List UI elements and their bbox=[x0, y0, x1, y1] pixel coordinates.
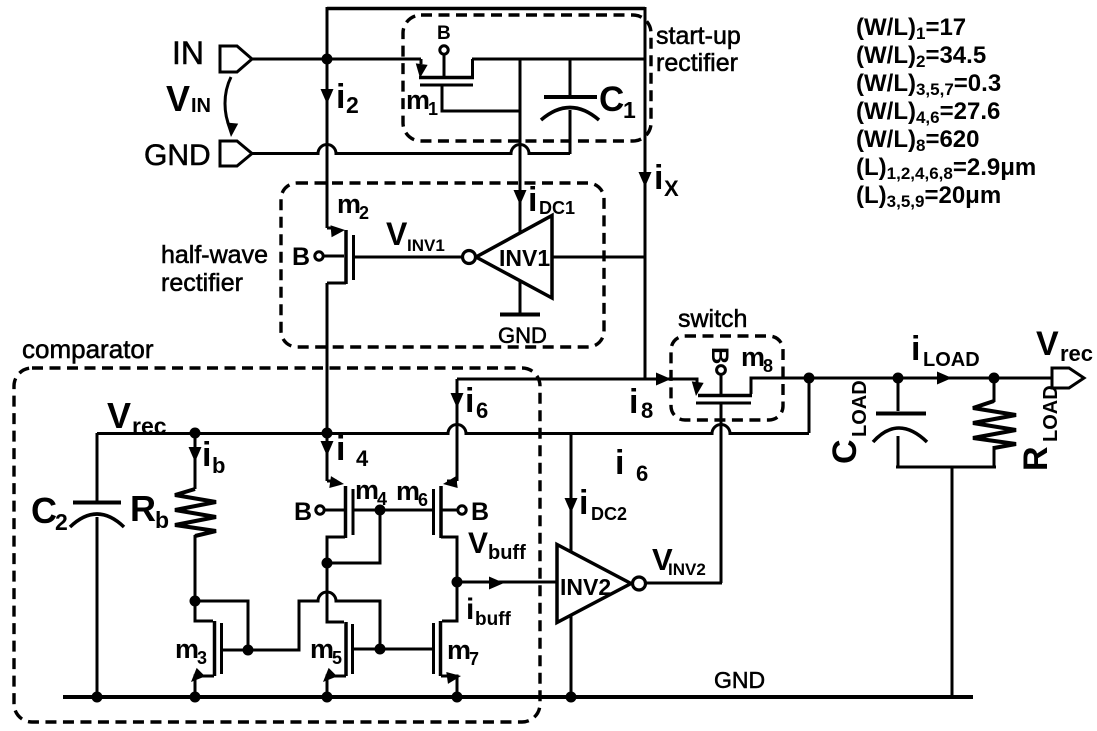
svg-text:3: 3 bbox=[197, 648, 207, 668]
svg-text:GND: GND bbox=[714, 667, 765, 693]
svg-text:1: 1 bbox=[623, 97, 636, 123]
svg-text:LOAD: LOAD bbox=[923, 349, 980, 371]
svg-text:6: 6 bbox=[418, 490, 428, 510]
svg-text:IN: IN bbox=[191, 95, 211, 117]
svg-text:7: 7 bbox=[469, 649, 479, 669]
svg-text:4: 4 bbox=[356, 446, 369, 471]
svg-text:i: i bbox=[911, 330, 920, 368]
svg-text:b: b bbox=[212, 453, 225, 478]
svg-text:6: 6 bbox=[636, 461, 648, 486]
svg-text:m: m bbox=[396, 476, 420, 506]
svg-text:B: B bbox=[437, 23, 451, 44]
svg-text:i: i bbox=[336, 430, 345, 468]
svg-text:(L)3,5,9​=20μm: (L)3,5,9​=20μm bbox=[856, 182, 1001, 211]
svg-text:DC2: DC2 bbox=[591, 504, 627, 524]
svg-text:V: V bbox=[468, 527, 488, 560]
svg-text:LOAD: LOAD bbox=[849, 380, 871, 437]
svg-text:m: m bbox=[355, 475, 379, 505]
svg-text:C: C bbox=[599, 80, 624, 119]
svg-text:INV1: INV1 bbox=[499, 245, 550, 271]
svg-text:rec: rec bbox=[132, 413, 167, 439]
svg-text:m: m bbox=[406, 85, 430, 115]
svg-text:INV2: INV2 bbox=[668, 560, 706, 579]
svg-text:comparator: comparator bbox=[22, 334, 154, 364]
svg-text:rectifier: rectifier bbox=[656, 49, 738, 77]
svg-text:V: V bbox=[107, 395, 131, 436]
svg-text:start-up: start-up bbox=[656, 22, 741, 50]
svg-text:(W/L)1​=17: (W/L)1​=17 bbox=[856, 14, 966, 43]
svg-text:2: 2 bbox=[346, 92, 359, 118]
svg-text:m: m bbox=[447, 635, 471, 665]
svg-text:8: 8 bbox=[763, 356, 773, 376]
svg-text:half-wave: half-wave bbox=[161, 241, 268, 269]
svg-text:LOAD: LOAD bbox=[1040, 385, 1062, 442]
svg-text:4: 4 bbox=[377, 489, 387, 509]
svg-text:i: i bbox=[615, 444, 624, 482]
svg-text:i: i bbox=[336, 78, 345, 116]
svg-text:m: m bbox=[337, 189, 361, 219]
svg-text:rectifier: rectifier bbox=[161, 269, 243, 297]
svg-text:IN: IN bbox=[172, 35, 204, 71]
svg-text:i: i bbox=[629, 383, 638, 421]
svg-text:X: X bbox=[664, 176, 679, 201]
svg-text:i: i bbox=[579, 484, 588, 522]
svg-text:B: B bbox=[706, 347, 733, 364]
svg-text:i: i bbox=[654, 159, 663, 197]
svg-text:i: i bbox=[202, 436, 211, 474]
svg-text:R: R bbox=[130, 488, 156, 529]
svg-text:C: C bbox=[826, 439, 864, 464]
svg-text:6: 6 bbox=[476, 398, 488, 423]
svg-text:GND: GND bbox=[498, 323, 547, 348]
svg-text:V: V bbox=[386, 216, 408, 252]
svg-text:B: B bbox=[292, 243, 310, 271]
svg-text:2: 2 bbox=[55, 509, 68, 535]
svg-text:B: B bbox=[294, 498, 312, 526]
svg-text:C: C bbox=[31, 490, 57, 531]
svg-text:R: R bbox=[1017, 446, 1055, 471]
svg-text:buff: buff bbox=[488, 542, 526, 564]
svg-text:switch: switch bbox=[678, 305, 747, 333]
svg-text:buff: buff bbox=[475, 609, 512, 630]
svg-text:B: B bbox=[471, 498, 489, 526]
svg-text:INV2: INV2 bbox=[560, 574, 611, 600]
svg-text:m: m bbox=[741, 342, 765, 372]
svg-text:INV1: INV1 bbox=[407, 236, 445, 255]
svg-text:b: b bbox=[155, 507, 169, 533]
svg-text:rec: rec bbox=[1060, 341, 1093, 366]
svg-text:2: 2 bbox=[359, 203, 369, 223]
svg-text:V: V bbox=[166, 78, 190, 119]
svg-text:V: V bbox=[1036, 325, 1059, 363]
svg-text:m: m bbox=[310, 634, 334, 664]
svg-text:DC1: DC1 bbox=[539, 198, 575, 218]
svg-text:8: 8 bbox=[641, 398, 653, 423]
svg-text:m: m bbox=[175, 634, 199, 664]
svg-text:GND: GND bbox=[144, 139, 211, 172]
svg-text:1: 1 bbox=[428, 99, 438, 119]
svg-text:5: 5 bbox=[332, 648, 342, 668]
svg-text:i: i bbox=[465, 382, 474, 420]
svg-text:i: i bbox=[528, 181, 537, 219]
svg-text:i: i bbox=[466, 593, 474, 626]
